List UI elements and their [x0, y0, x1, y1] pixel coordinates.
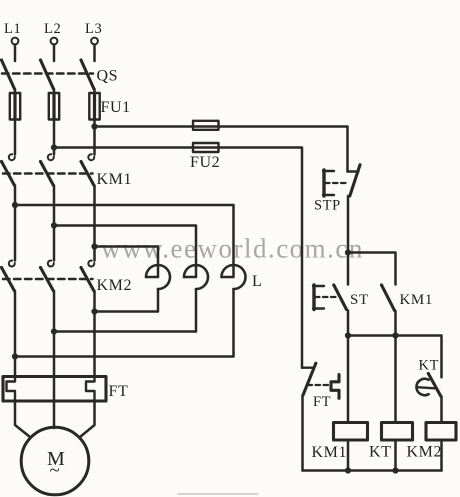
- reactor L coil 2: [184, 265, 208, 289]
- svg-text:L2: L2: [44, 21, 61, 37]
- wire L1 KM1 to KM2: [14, 186, 17, 261]
- svg-text:KT: KT: [369, 444, 392, 461]
- wire L1 KM2 to FT: [14, 291, 17, 377]
- thermal relay FT heater element phase 1: [7, 377, 16, 402]
- coil KM2: [426, 423, 456, 441]
- contactor KM2 main contact 3: [80, 261, 95, 291]
- svg-text:STP: STP: [314, 198, 341, 214]
- contact KT time-delay (NO, delay close): [416, 372, 441, 397]
- contactor KM1 main contact 3: [80, 154, 95, 185]
- node reactor 3 return: [12, 353, 18, 359]
- pushbutton ST (start, NO): [313, 253, 348, 310]
- node reactor tap L2: [51, 222, 57, 228]
- node rail at KM1 aux: [392, 332, 398, 338]
- contact FT thermal (NC): [302, 362, 339, 399]
- wire FT to motor 2: [53, 401, 56, 428]
- svg-text:FT: FT: [313, 394, 331, 410]
- wire reactor 2 return to L2: [54, 289, 196, 332]
- reactor L coil 3: [222, 265, 246, 289]
- contactor KM2 main contact 1: [0, 261, 15, 291]
- wire tap L1 to reactor 3: [15, 205, 234, 277]
- svg-text:FU2: FU2: [190, 154, 220, 171]
- svg-text:KM1: KM1: [312, 444, 348, 461]
- thermal relay FT heater element phase 3: [86, 377, 95, 402]
- wire KT coil bottom: [394, 440, 397, 471]
- fuse FU1 phase 1: [10, 93, 20, 120]
- wire reactor 1 return to L3: [95, 289, 159, 312]
- svg-text:FU1: FU1: [101, 99, 131, 116]
- wire L2 lead: [53, 45, 56, 61]
- svg-text:L1: L1: [4, 21, 21, 37]
- fuse FU1 phase 3: [89, 93, 99, 120]
- wire tap L2 to reactor 2: [54, 226, 196, 278]
- wire KT contact to KM2 coil: [440, 397, 443, 423]
- wire KM1 coil bottom: [347, 440, 350, 471]
- fuse FU2 bottom: [193, 143, 219, 152]
- wire L3 KM2 to FT: [93, 291, 96, 377]
- wire L2 blade to fuse: [53, 89, 56, 93]
- wire KM2 coil bottom: [440, 440, 443, 471]
- wire FT to motor 3: [80, 401, 95, 437]
- wire bottom rail: [303, 469, 442, 472]
- switch QS pole 2: [39, 59, 54, 90]
- svg-text:KT: KT: [419, 358, 440, 374]
- node L2 to control fuse FU2 bottom: [51, 144, 57, 150]
- wire L2 KM2 to FT: [53, 291, 56, 401]
- node L3 to control fuse FU2 top: [91, 123, 97, 129]
- scan artifact bottom edge: [178, 493, 258, 495]
- node reactor tap L3: [91, 243, 97, 249]
- switch QS pole 3: [80, 59, 95, 90]
- wire L3 fuse to KM1: [93, 120, 96, 155]
- contactor KM2 linkage dashed bar: [3, 278, 93, 281]
- wire KM1 aux to rail: [394, 311, 397, 336]
- wire reactor 3 return to L1: [15, 289, 234, 357]
- wire control rail: [348, 336, 442, 378]
- wire node to KM1 aux: [348, 253, 396, 285]
- svg-text:~: ~: [50, 460, 61, 481]
- wire L1 fuse to KM1: [14, 120, 17, 155]
- switch QS linkage dashed bar: [2, 72, 93, 75]
- switch QS pole 1: [0, 59, 15, 90]
- svg-text:QS: QS: [97, 68, 119, 85]
- wire FT contact to bottom rail: [301, 395, 304, 470]
- wire L3 KM1 to KM2: [93, 186, 96, 261]
- node bottom rail at KM1: [345, 467, 351, 473]
- svg-text:KM1: KM1: [97, 171, 133, 188]
- wire to FU2 top: [95, 127, 348, 172]
- wire to FU2 bottom: [54, 148, 302, 368]
- wire L1 lead: [14, 45, 17, 61]
- wire L1 blade to fuse: [14, 89, 17, 93]
- svg-text:ST: ST: [350, 292, 369, 308]
- motor M: [21, 427, 89, 495]
- coil KT: [382, 423, 413, 441]
- svg-text:L3: L3: [85, 21, 102, 37]
- node reactor tap L1: [12, 202, 18, 208]
- svg-text:KM2: KM2: [97, 277, 133, 294]
- wire L2 KM1 to KM2: [53, 186, 56, 261]
- wire L3 blade to fuse: [93, 89, 96, 93]
- contactor KM1 linkage dashed bar: [3, 172, 93, 175]
- pushbutton STP (stop, NC): [323, 163, 362, 196]
- wire ST to rail: [347, 311, 350, 336]
- reactor L coil 1: [146, 265, 170, 289]
- svg-text:L: L: [252, 273, 262, 290]
- fuse FU1 phase 2: [49, 93, 59, 120]
- svg-text:KM1: KM1: [400, 292, 433, 308]
- contactor KM1 main contact 2: [39, 154, 54, 185]
- wire KM1 coil top: [347, 336, 350, 423]
- wire L3 lead: [93, 45, 96, 61]
- thermal relay FT box: [3, 377, 106, 402]
- node rail at ST: [345, 332, 351, 338]
- svg-text:KM2: KM2: [407, 444, 443, 461]
- node reactor 2 return: [51, 328, 57, 334]
- contactor KM1 main contact 1: [0, 154, 15, 185]
- wire L2 fuse to KM1: [53, 120, 56, 155]
- node bottom rail at KT: [392, 467, 398, 473]
- svg-text:FT: FT: [109, 383, 129, 400]
- node control branch: [345, 249, 351, 255]
- wire FT to motor 1: [15, 401, 30, 437]
- contact KM1 auxiliary (NO): [380, 284, 395, 311]
- wire tap L3 to reactor 1: [95, 247, 159, 278]
- node reactor 1 return: [91, 308, 97, 314]
- wire STP to node: [347, 196, 350, 253]
- wire KT coil top: [394, 336, 397, 423]
- coil KM1: [334, 423, 368, 441]
- contactor KM2 main contact 2: [39, 261, 54, 291]
- fuse FU2 top: [193, 121, 219, 130]
